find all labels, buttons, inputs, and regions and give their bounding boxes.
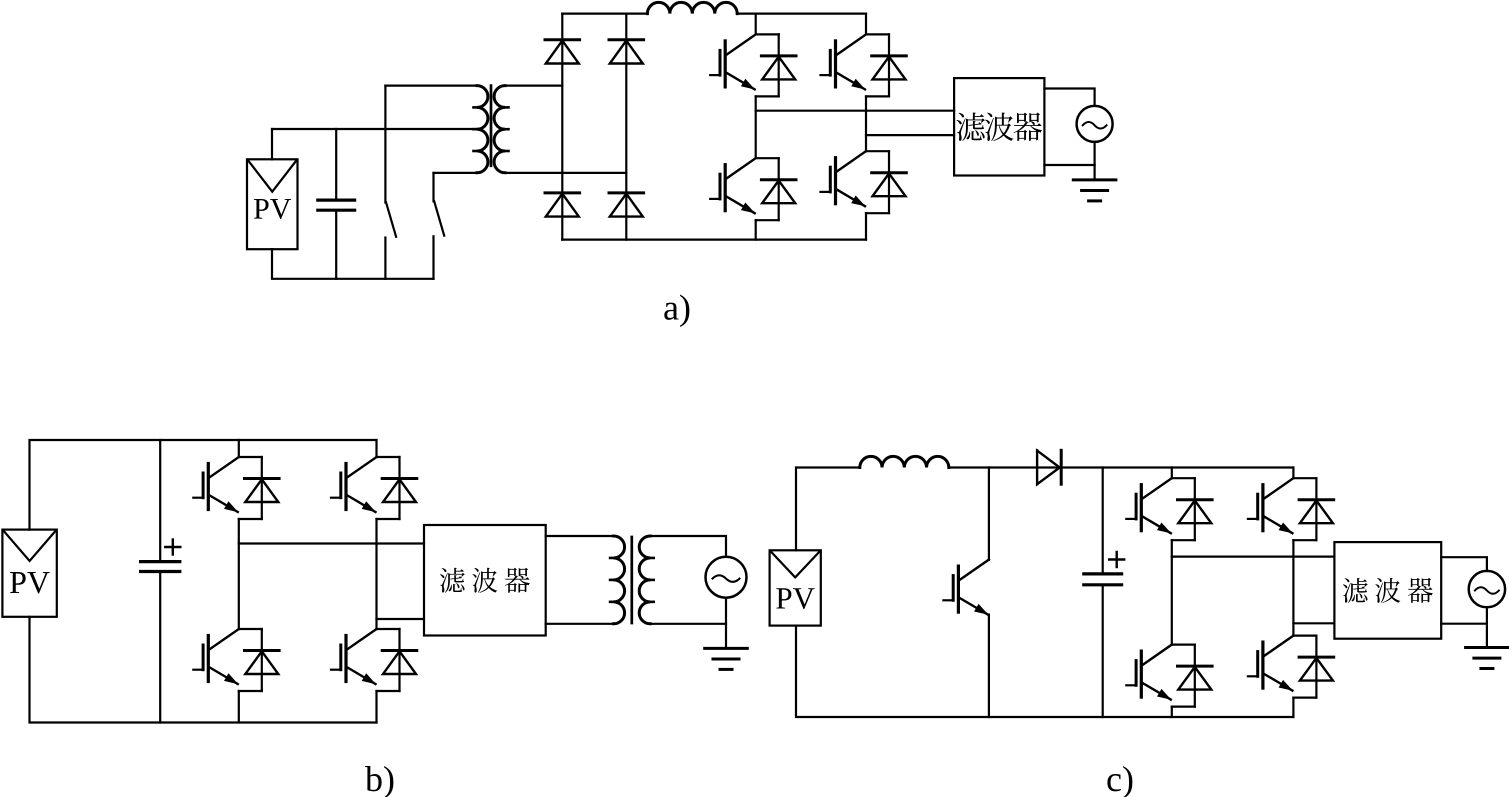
freewheel diode of V1 (b upper-left) (239, 457, 279, 519)
circuit c: boost + full-bridge transformerless PV inverter (770, 450, 1509, 797)
circuit b: full-bridge inverter with LF transformer (2, 440, 747, 797)
AC grid source (c) (1469, 571, 1505, 607)
wire filter to grid bottom (c) (1441, 623, 1487, 625)
wire boost switch leg top (c) (988, 468, 990, 560)
wire filter to transformer bottom (b) (546, 623, 614, 625)
transformer T1 primary winding (a) (474, 86, 488, 173)
wire bridge output lower (b) (377, 618, 425, 620)
wire boost rail middle (c) (949, 466, 1060, 468)
transformer T secondary winding (b) (639, 536, 653, 624)
inductor L1 DC link choke (a) (647, 2, 737, 13)
freewheel diode of V4 (c lower-right) (1293, 636, 1333, 698)
circuit a: push-pull isolated PV inverter (247, 2, 1116, 327)
freewheel diode of V1 (c upper-left) (1172, 478, 1212, 540)
wire bridge output upper (a) (756, 110, 954, 112)
wire source to ground (b) (725, 598, 727, 649)
ground (a) (1073, 180, 1116, 201)
wire DC link top rail left segment (a) (562, 13, 647, 15)
wire rail diode to capacitor (c) (1061, 466, 1172, 468)
wire transformer primary bottom to S2 (a) (434, 172, 478, 174)
diode D1 (a rectifier) (545, 40, 580, 64)
capacitor DC link C (b) (141, 540, 181, 572)
transformer T1 secondary winding (a) (494, 86, 508, 173)
wire rectifier right leg (a) (625, 14, 627, 240)
diode D4 (a rectifier) (609, 193, 644, 217)
wire PV+ to DC bus (a) (271, 129, 273, 159)
AC grid source (a) (1077, 106, 1113, 142)
wire bridge output upper (b) (239, 542, 424, 544)
wire secondary top to grid (b) (650, 536, 726, 557)
wire PV top to rail (c) (796, 468, 860, 551)
label a) (664, 295, 689, 328)
diode D3 (a rectifier) (545, 193, 580, 217)
wire bridge output lower (c) (1293, 622, 1334, 624)
wire rectifier left leg (a) (561, 14, 563, 240)
wire filter to grid top (a) (1044, 89, 1094, 106)
diode D boost (c) (1037, 450, 1060, 484)
inductor L boost choke (c) (860, 456, 949, 467)
transistor V2 (a upper-right) (IGBT) (821, 34, 867, 89)
wire capacitor bottom lead (a) (335, 210, 337, 279)
transistor V4 (c lower-right) (IGBT) (1248, 636, 1294, 691)
wire H-bridge top rail (c) (1172, 466, 1294, 468)
wire left bridge leg segments (a) (755, 14, 757, 35)
freewheel diode of V2 (a upper-right) (866, 34, 906, 96)
transistor V1 (b upper-left) (IGBT) (193, 457, 239, 512)
wire filter to transformer top (b) (546, 535, 614, 537)
wire bridge output upper (c) (1172, 555, 1335, 557)
wire source to ground (a) (1093, 142, 1095, 180)
freewheel diode of V4 (a lower-right) (866, 151, 906, 213)
freewheel diode of V2 (b upper-right) (377, 457, 417, 519)
wire PV top to DC+ rail (b) (30, 440, 377, 530)
filter block 滤波器 (c) (1334, 542, 1441, 639)
wire bridge output lower (a) (866, 134, 954, 136)
freewheel diode of V3 (c lower-left) (1172, 645, 1212, 707)
wire left bridge leg segments (b) (238, 440, 240, 457)
wire transformer primary top to S1 (a) (385, 84, 477, 86)
wire capacitor top lead (c) (1102, 468, 1104, 574)
transformer T core (b) (630, 537, 633, 623)
filter block 滤波器 (b) (424, 525, 546, 636)
wire boost switch leg bottom (c) (988, 615, 990, 717)
wire capacitor bottom lead (b) (159, 572, 161, 723)
wire right bridge leg segments (c) (1292, 468, 1294, 479)
wire PV- bottom rail (a) (272, 249, 434, 279)
freewheel diode of V1 (a upper-left) (756, 34, 796, 96)
PV module (circuit c) (770, 550, 821, 625)
label b) (365, 766, 393, 797)
wire right bridge leg segments (a) (865, 14, 867, 35)
switch S2 (a) (434, 173, 445, 279)
freewheel diode of V3 (a lower-left) (756, 158, 796, 220)
PV module (circuit a) (247, 159, 298, 249)
wire DC link bottom rail (a) (562, 239, 866, 241)
wire PV bottom to DC- rail (b) (30, 617, 377, 723)
wire filter to grid bottom (a) (1044, 164, 1094, 166)
wire capacitor bottom lead (c) (1102, 585, 1104, 717)
transistor V boost switch (IGBT, c) (943, 560, 989, 615)
transistor V2 (c upper-right) (IGBT) (1248, 478, 1294, 533)
wire secondary top to rectifier (a) (505, 84, 562, 86)
transformer T primary winding (b) (610, 536, 624, 624)
wire left bridge leg segments (c) (1171, 468, 1173, 479)
transistor V1 (a upper-left) (IGBT) (710, 34, 756, 89)
wire source to ground (c) (1486, 607, 1488, 647)
label c) (1107, 766, 1132, 797)
transistor V3 (c lower-left) (IGBT) (1126, 645, 1172, 700)
PV module (circuit b) (2, 530, 56, 617)
wire capacitor top lead (b) (159, 440, 161, 562)
transistor V3 (b lower-left) (IGBT) (193, 629, 239, 684)
freewheel diode of V3 (b lower-left) (239, 629, 279, 691)
label 滤波器 (filter) text (440, 568, 530, 593)
wire DC link top rail right segment (a) (737, 13, 866, 15)
label 滤波器 (filter) text (1343, 578, 1433, 603)
diode D2 (a rectifier) (609, 40, 644, 64)
transistor V1 (c upper-left) (IGBT) (1126, 478, 1172, 533)
ground (c) (1466, 648, 1509, 669)
transistor V2 (b upper-right) (IGBT) (331, 457, 377, 512)
capacitor DC link C (c) (1084, 552, 1124, 585)
transistor V4 (a lower-right) (IGBT) (821, 151, 867, 206)
freewheel diode of V4 (b lower-right) (377, 629, 417, 691)
filter block 滤波器 (a) (954, 78, 1044, 175)
wire DC+ rail to transformer centre tap (a) (272, 128, 477, 130)
ground (b) (705, 648, 748, 669)
transistor V4 (b lower-right) (IGBT) (331, 629, 377, 684)
wire PV bottom to rail (c) (796, 626, 1293, 717)
wire filter to grid top (c) (1441, 557, 1487, 571)
wire secondary bottom to rectifier (a) (505, 172, 626, 174)
transistor V3 (a lower-left) (IGBT) (710, 158, 756, 213)
transformer T1 core (a) (490, 86, 493, 166)
AC grid source (b) (706, 557, 747, 598)
label 滤波器 (filter) text (957, 113, 1043, 142)
wire capacitor top lead (a) (335, 129, 337, 200)
wire secondary bottom to grid (b) (650, 623, 726, 625)
freewheel diode of V2 (c upper-right) (1293, 478, 1333, 540)
capacitor input filter C (a) (318, 200, 355, 210)
wire right bridge leg segments (b) (375, 440, 377, 457)
switch S1 (a) (385, 86, 396, 279)
